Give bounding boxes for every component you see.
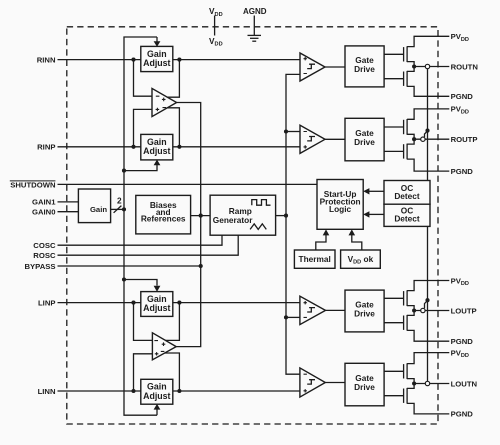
wire ROUTN output node [414,66,449,68]
svg-text:BYPASS: BYPASS [24,262,55,271]
svg-text:Detect: Detect [394,191,420,201]
svg-text:Adjust: Adjust [143,146,170,156]
biases and references box [136,195,191,234]
svg-text:PVDD: PVDD [451,348,469,359]
wire GAIN1 [58,201,79,203]
bus width slash [114,206,122,213]
svg-text:PGND: PGND [451,92,474,101]
op-amp R inverting input wire [134,60,153,97]
wire ROSC [58,235,239,255]
wire comparator3 to gate drive3 [326,309,346,311]
pin VDD top wire [214,16,216,36]
op-amp common output vertical [176,103,201,347]
vdd ok box [341,250,381,268]
svg-text:GAIN1: GAIN1 [32,198,56,207]
svg-text:Logic: Logic [329,204,352,214]
ramp tap comparator 2 [286,131,300,133]
svg-text:Drive: Drive [354,64,375,74]
ramp tap comparator 3 [286,316,300,318]
output stage R1: low-side FET [384,67,449,97]
output stage R1: high-side FET [384,36,449,66]
pin circle LOUTN [425,381,429,385]
svg-text:Drive: Drive [354,137,375,147]
gate drive 3 box [345,290,384,332]
bus tap to gain adjust R2 [124,164,157,170]
wire biases to ramp generator [191,215,211,217]
svg-text:PVDD: PVDD [451,105,469,116]
OC arrow 1 wire [369,190,384,192]
svg-text:Adjust: Adjust [143,391,170,401]
wire comparator4 to gate drive4 [325,382,345,384]
current sense line L to OC detect [427,226,429,383]
op-amp R [152,88,177,116]
svg-text:Generator: Generator [213,215,253,225]
svg-text:LOUTN: LOUTN [451,379,478,388]
svg-text:PVDD: PVDD [451,276,469,287]
current sense line R to OC detect [427,67,429,181]
gain adjust R2 box [141,134,173,160]
square wave icon [252,200,271,206]
wire LOUTN output node [414,383,449,385]
pin circle ROUTN [425,64,429,68]
gain-select bus vertical with top/bottom taps [124,37,157,415]
op-amp L [152,333,176,360]
OC arrow 2 wire [369,213,384,215]
svg-text:AGND: AGND [243,7,267,16]
pin circle LOUTP [421,308,425,312]
gate drive 2 box [345,118,384,161]
arrow stem into gain adjust L2 [156,409,158,415]
output stage R2: low-side FET [384,139,449,171]
thermal box [294,250,335,268]
svg-text:ROUTN: ROUTN [451,62,479,71]
svg-text:Drive: Drive [354,309,375,319]
wire LOUTP output node [414,310,449,312]
arrowhead into gain adjust L1 [154,286,161,292]
wire COSC [58,235,223,245]
svg-text:2: 2 [117,196,122,206]
wire LINN [58,390,300,392]
svg-text:PGND: PGND [451,410,474,419]
svg-text:PVDD: PVDD [451,32,469,43]
svg-text:VDD: VDD [209,6,223,18]
wire comparator2 to gate drive2 [325,138,345,140]
svg-text:VDD ok: VDD ok [348,254,374,266]
arrowhead thermal to startup [323,229,330,235]
wire comparator1 to gate drive1 [325,66,345,68]
gain adjust L2 box [141,379,173,404]
svg-text:ROUTP: ROUTP [451,135,478,144]
svg-text:LINP: LINP [38,298,56,307]
sense hook ROUTP [425,131,428,137]
svg-text:COSC: COSC [33,241,56,250]
svg-text:Drive: Drive [354,382,375,392]
svg-text:LOUTP: LOUTP [451,306,477,315]
ramp distribution vertical [286,74,300,374]
op-amp L lower feedback wire [165,353,180,391]
svg-text:PGND: PGND [451,337,474,346]
gain select box [78,189,110,223]
op-amp L upper feedback wire [166,303,180,341]
comparator 2 [300,125,325,153]
OC detect box 2 [384,204,430,226]
ramp generator box [210,195,276,235]
svg-text:ROSC: ROSC [33,251,56,260]
wire RINP [58,146,301,148]
comparator 3 [300,296,326,324]
svg-text:Detect: Detect [394,214,420,224]
op-amp L inverting input wire [134,303,153,341]
wire SHUTDOWN [58,183,318,185]
gain adjust R1 box [141,46,173,71]
pin AGND wire [253,16,255,36]
svg-text:Adjust: Adjust [143,303,170,313]
comparator 4 [300,368,325,397]
thermal arrow wire [316,235,326,250]
wire LINP [58,302,300,304]
svg-text:References: References [141,214,186,224]
wire GAIN0 [58,211,79,213]
arrowhead into gain adjust L2 [154,404,161,410]
op-amp R non-inverting input wire [134,109,153,146]
wire gain box output with bus junction [111,208,124,210]
wire ROUTP output node [414,138,449,140]
OC detect box 1 [384,181,430,205]
svg-text:Thermal: Thermal [299,254,331,264]
output stage L1: low-side FET [384,311,449,342]
sense hook LOUTP [425,301,428,309]
ground symbol AGND [248,35,262,41]
gain adjust L1 box [141,292,173,317]
wire RINN [58,59,301,61]
triangle wave icon [250,224,266,230]
IC boundary dashed box [67,27,438,424]
vddok arrow wire [352,235,362,250]
arrowhead OC2 to startup [363,211,369,217]
output stage L1: high-side FET [384,281,449,311]
svg-text:VDD: VDD [209,36,223,48]
svg-text:RINN: RINN [37,55,56,64]
arrowhead vddok to startup [349,229,356,235]
op-amp R lower feedback wire [167,108,180,147]
svg-text:RINP: RINP [37,143,55,152]
bus tap to gain adjust L1 [124,280,157,286]
svg-text:PGND: PGND [451,167,474,176]
gate drive 4 box [345,363,384,406]
op-amp L non-inverting input wire [134,354,153,391]
arrowhead into gain adjust R1 [154,41,161,47]
wire BYPASS [58,265,201,267]
start-up protection logic box [317,180,363,230]
arrowhead into gain adjust R2 [154,160,161,166]
svg-text:GAIN0: GAIN0 [32,208,56,217]
svg-text:LINN: LINN [38,387,56,396]
svg-text:SHUTDOWN: SHUTDOWN [10,180,56,189]
arrow stem into gain adjust R1 [156,37,158,42]
comparator 1 [300,53,325,81]
svg-text:Gain: Gain [90,205,107,214]
wire ramp generator output [276,215,286,217]
output stage L2: low-side FET [384,384,449,414]
arrowhead OC1 to startup [363,188,369,194]
pin circle ROUTP [421,137,425,141]
output stage R2: high-side FET [384,109,449,139]
output stage L2: high-side FET [384,353,449,384]
op-amp R upper feedback wire [168,60,180,98]
gate drive 1 box [345,46,384,87]
svg-text:Adjust: Adjust [143,58,170,68]
